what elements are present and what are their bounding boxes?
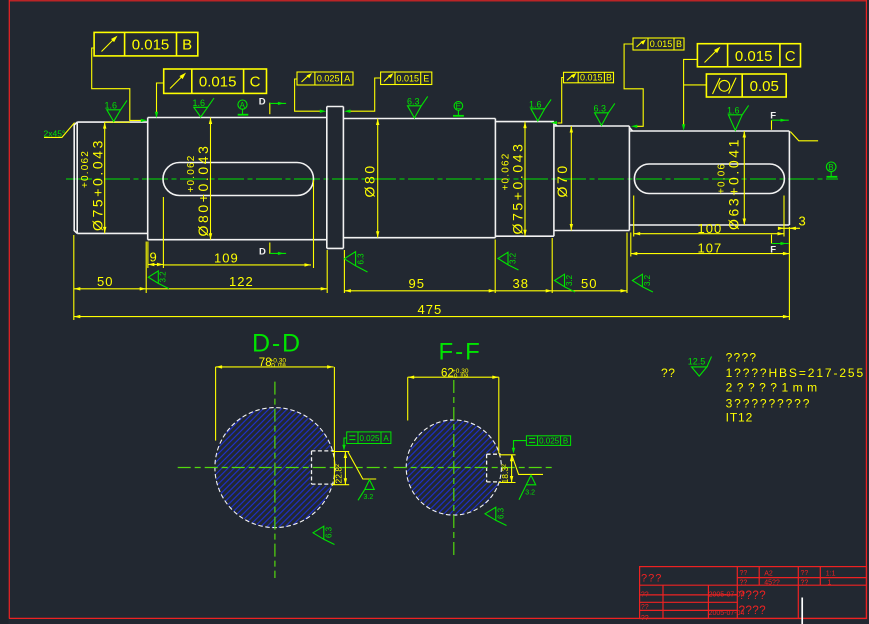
dimension 475: [74, 302, 790, 319]
svg-text:3.2: 3.2: [565, 274, 574, 286]
dimension 9: [148, 250, 164, 267]
svg-text:A: A: [344, 74, 350, 84]
cut marker D top: [259, 97, 286, 115]
roughness 6.3 on dia80-2: [407, 96, 428, 118]
border top line: [9, 0, 867, 2]
svg-text:3.2: 3.2: [159, 271, 168, 283]
svg-text:6.3: 6.3: [325, 526, 334, 538]
svg-text:2????1mm: 2????1mm: [726, 381, 822, 395]
dimension 78 with tolerance: [216, 357, 335, 485]
svg-text:ma: ma: [278, 362, 287, 368]
section D-D keyway extensions yellow: [332, 452, 349, 485]
leader frame B2: [551, 78, 564, 125]
svg-text:1: 1: [827, 579, 831, 586]
svg-text:18.3²: 18.3²: [500, 464, 510, 484]
shaft section S2 dia80 keyed outline: [148, 118, 327, 240]
svg-text:??: ??: [740, 579, 748, 586]
roughness 1.6 on S1: [105, 100, 128, 121]
section D-D keyway slot dashed: [312, 451, 335, 484]
svg-text:F-F: F-F: [439, 339, 482, 366]
datum E lollipop: [453, 102, 464, 116]
dimension 107: [631, 241, 790, 256]
leader frames C2 and cylindricity: [682, 59, 707, 130]
title block grid: [640, 567, 867, 619]
leader to 3.2 keyway F-F: [512, 456, 543, 475]
dimension 95: [344, 276, 495, 293]
shaft section dia80-2 outline: [343, 119, 495, 238]
paper margin strip left of border: [0, 0, 9, 624]
border left line: [8, 0, 10, 619]
frame symmetry 0.025 B green: [526, 436, 570, 446]
svg-text:1.6: 1.6: [193, 98, 206, 108]
svg-text:0.015: 0.015: [132, 37, 170, 54]
svg-text:B: B: [676, 39, 682, 49]
svg-text:107: 107: [698, 241, 723, 256]
shaft section dia70 outline: [554, 123, 630, 231]
dimension 50 left: [74, 274, 146, 291]
svg-text:122: 122: [229, 274, 254, 289]
keyway slot dia63: [634, 164, 784, 194]
section F-F keyway extensions yellow: [499, 455, 516, 483]
frame runout 0.015 C top-left: [164, 69, 267, 93]
keyway width dim 18.3: [500, 455, 513, 484]
svg-text:Ø80: Ø80: [362, 163, 378, 197]
right end chamfer leader: [790, 132, 818, 141]
frame symmetry 0.025 A green: [347, 432, 391, 444]
leader frame E1: [344, 78, 381, 113]
roughness 6.3 rotated below F-F: [485, 507, 507, 525]
main centerline: [66, 178, 838, 180]
section D-D centerlines: [178, 382, 387, 578]
svg-text:D-D: D-D: [252, 330, 302, 358]
svg-text:??: ??: [801, 570, 809, 577]
svg-text:0.025: 0.025: [317, 74, 340, 84]
svg-text:Ø70: Ø70: [554, 163, 570, 197]
svg-text:38: 38: [513, 276, 529, 291]
svg-text:??: ??: [641, 615, 649, 622]
leader to 3.2 keyway D-D: [348, 452, 376, 479]
svg-text:IT12: IT12: [726, 411, 754, 425]
svg-text:3: 3: [799, 214, 806, 229]
dim dia75-2: [501, 122, 527, 237]
svg-text:??: ??: [661, 366, 676, 380]
roughness 6.3 rotated at collar face: [344, 252, 367, 272]
svg-text:???: ???: [641, 573, 662, 585]
svg-text:6.3: 6.3: [357, 253, 366, 265]
svg-text:A: A: [240, 101, 246, 110]
svg-text:0.025: 0.025: [539, 436, 560, 445]
svg-text:109: 109: [214, 251, 239, 266]
keyway width dim 22.8: [334, 452, 348, 485]
roughness 3.2 rotated at dia70 shoulder: [555, 274, 576, 292]
svg-text:12.5: 12.5: [688, 357, 706, 367]
dim dia80-2: [362, 119, 380, 238]
svg-text:22.8²: 22.8²: [334, 464, 344, 484]
section F-F keyway slot dashed: [487, 454, 501, 482]
shaft section S1 dia75 outline: [74, 122, 148, 233]
svg-text:A: A: [383, 434, 389, 443]
svg-text:+0.062: +0.062: [501, 152, 512, 190]
svg-text:0.05: 0.05: [750, 78, 779, 95]
dimension 100: [634, 221, 784, 236]
roughness 1.6 on S2: [193, 98, 215, 117]
leader frame C1: [155, 83, 164, 118]
roughness 3.2 inverted keyway D-D: [358, 480, 374, 501]
roughness 3.2 rotated at dia63 shoulder: [632, 274, 653, 292]
svg-text:9: 9: [150, 250, 157, 265]
section F-F hatched circle: [406, 420, 503, 515]
cut marker F top: [770, 111, 789, 130]
svg-text:??: ??: [740, 570, 748, 577]
svg-text:3.2: 3.2: [509, 252, 518, 264]
svg-text:475: 475: [418, 302, 443, 317]
dimension 62 with tolerance: [408, 368, 499, 454]
svg-text:1:1: 1:1: [826, 571, 836, 578]
svg-text:D: D: [259, 97, 266, 108]
svg-text:0.015: 0.015: [650, 39, 673, 49]
frame runout 0.025 A: [297, 72, 353, 85]
leader frame A1: [295, 79, 327, 113]
frame cylindricity 0.05: [706, 74, 786, 97]
datum A lollipop: [238, 100, 249, 115]
border right line: [865, 0, 867, 619]
dimension 122: [146, 274, 327, 291]
svg-text:3.2: 3.2: [643, 274, 652, 286]
dim dia70: [554, 126, 573, 231]
title block texts: [641, 570, 836, 622]
svg-text:C: C: [785, 48, 796, 65]
svg-text:??: ??: [641, 592, 649, 599]
leader symmetry frame F-F: [512, 441, 527, 454]
svg-text:????: ????: [739, 605, 767, 617]
cut marker F bottom: [770, 235, 789, 256]
svg-text:Ø75+0.043: Ø75+0.043: [89, 138, 105, 231]
cut marker D bottom: [259, 243, 286, 258]
svg-text:0: 0: [270, 363, 276, 370]
svg-text:D: D: [259, 246, 266, 257]
dimension 109: [163, 251, 311, 267]
svg-text:100: 100: [698, 221, 723, 236]
svg-text:????: ????: [726, 350, 758, 364]
dimension 38: [495, 276, 552, 293]
svg-text:1.6: 1.6: [727, 106, 740, 116]
svg-text:0.015: 0.015: [580, 72, 603, 82]
keyway slot S2: [163, 163, 314, 196]
svg-text:6.3: 6.3: [594, 104, 607, 114]
notes roughness symbol 12.5: [688, 357, 712, 377]
svg-text:Ø80+0.043: Ø80+0.043: [195, 143, 211, 236]
svg-text:E: E: [423, 73, 429, 83]
notes text block: [726, 350, 866, 424]
roughness 1.6 on dia75-2: [529, 99, 551, 121]
svg-text:B: B: [563, 436, 568, 445]
svg-text:3.2: 3.2: [364, 494, 374, 501]
svg-text:3?????????: 3?????????: [726, 396, 812, 410]
svg-text:+0.062: +0.062: [186, 154, 197, 192]
shaft section dia75-2 outline: [495, 122, 554, 237]
svg-text:50: 50: [581, 276, 597, 291]
section D-D hatched circle: [215, 408, 336, 528]
dim dia63: [717, 131, 747, 230]
section F-F centerlines: [394, 380, 553, 556]
leader frame B1: [92, 48, 148, 122]
svg-text:1.6: 1.6: [105, 101, 118, 111]
chamfer callout 2x45: [44, 123, 75, 139]
svg-text:A2: A2: [764, 571, 773, 578]
frame runout 0.015 B mid: [564, 72, 614, 83]
svg-text:Ø75+0.043: Ø75+0.043: [509, 141, 525, 234]
svg-text:6.3: 6.3: [497, 507, 506, 519]
svg-text:C: C: [250, 74, 261, 91]
svg-text:+0.06: +0.06: [717, 163, 728, 194]
roughness 6.3 on dia70: [594, 103, 615, 125]
svg-text:????: ????: [739, 590, 767, 602]
svg-text:3.2: 3.2: [525, 490, 535, 497]
datum B lollipop right: [826, 162, 837, 177]
shaft section dia63 keyed outline: [629, 128, 789, 226]
svg-text:6.3: 6.3: [407, 97, 420, 107]
svg-text:0.025: 0.025: [359, 434, 380, 443]
dim dia75 S1: [80, 122, 106, 233]
extension lines left group: [74, 180, 790, 320]
svg-text:0.015: 0.015: [397, 73, 420, 83]
svg-text:ma: ma: [461, 372, 470, 378]
svg-text:B: B: [828, 163, 833, 172]
svg-text:50: 50: [97, 274, 113, 289]
frame runout 0.015 B upper-right: [633, 38, 684, 50]
frame runout 0.015 C right: [697, 44, 800, 67]
svg-text:E: E: [456, 102, 461, 111]
frame runout 0.015 E: [381, 72, 432, 85]
roughness 3.2 rotated at dia75-2 shoulder: [498, 252, 519, 270]
svg-text:0.015: 0.015: [735, 48, 773, 65]
roughness 6.3 rotated below D-D: [313, 526, 335, 544]
collar dia94 outline: [327, 107, 344, 249]
svg-text:45??: 45??: [764, 579, 780, 586]
svg-text:B: B: [182, 37, 192, 54]
roughness 3.2 rotated at S2 shoulder: [148, 271, 169, 289]
svg-text:+0.062: +0.062: [80, 150, 91, 188]
roughness 3.2 inverted keyway F-F: [519, 475, 536, 500]
border bottom line: [9, 617, 867, 619]
leader symmetry frame D-D: [342, 438, 346, 451]
svg-text:0: 0: [452, 373, 458, 380]
svg-text:??: ??: [801, 579, 809, 586]
svg-text:95: 95: [409, 276, 425, 291]
svg-text:F: F: [770, 245, 776, 256]
svg-text:??: ??: [641, 604, 649, 611]
svg-text:Ø63+0.041: Ø63+0.041: [726, 137, 742, 230]
white tick mark bottom right: [801, 598, 803, 624]
dimension 50 right: [552, 276, 627, 293]
frame runout 0.015 B top-left: [94, 32, 198, 56]
dimension 3: [778, 214, 806, 231]
svg-text:0.015: 0.015: [199, 74, 237, 91]
dim dia80 S2: [186, 118, 212, 240]
svg-text:B: B: [606, 72, 612, 82]
leader frame B3: [624, 44, 643, 128]
svg-text:1.6: 1.6: [529, 100, 542, 110]
svg-text:1????HBS=217-255: 1????HBS=217-255: [726, 366, 866, 380]
roughness 1.6 on dia63: [727, 105, 749, 130]
